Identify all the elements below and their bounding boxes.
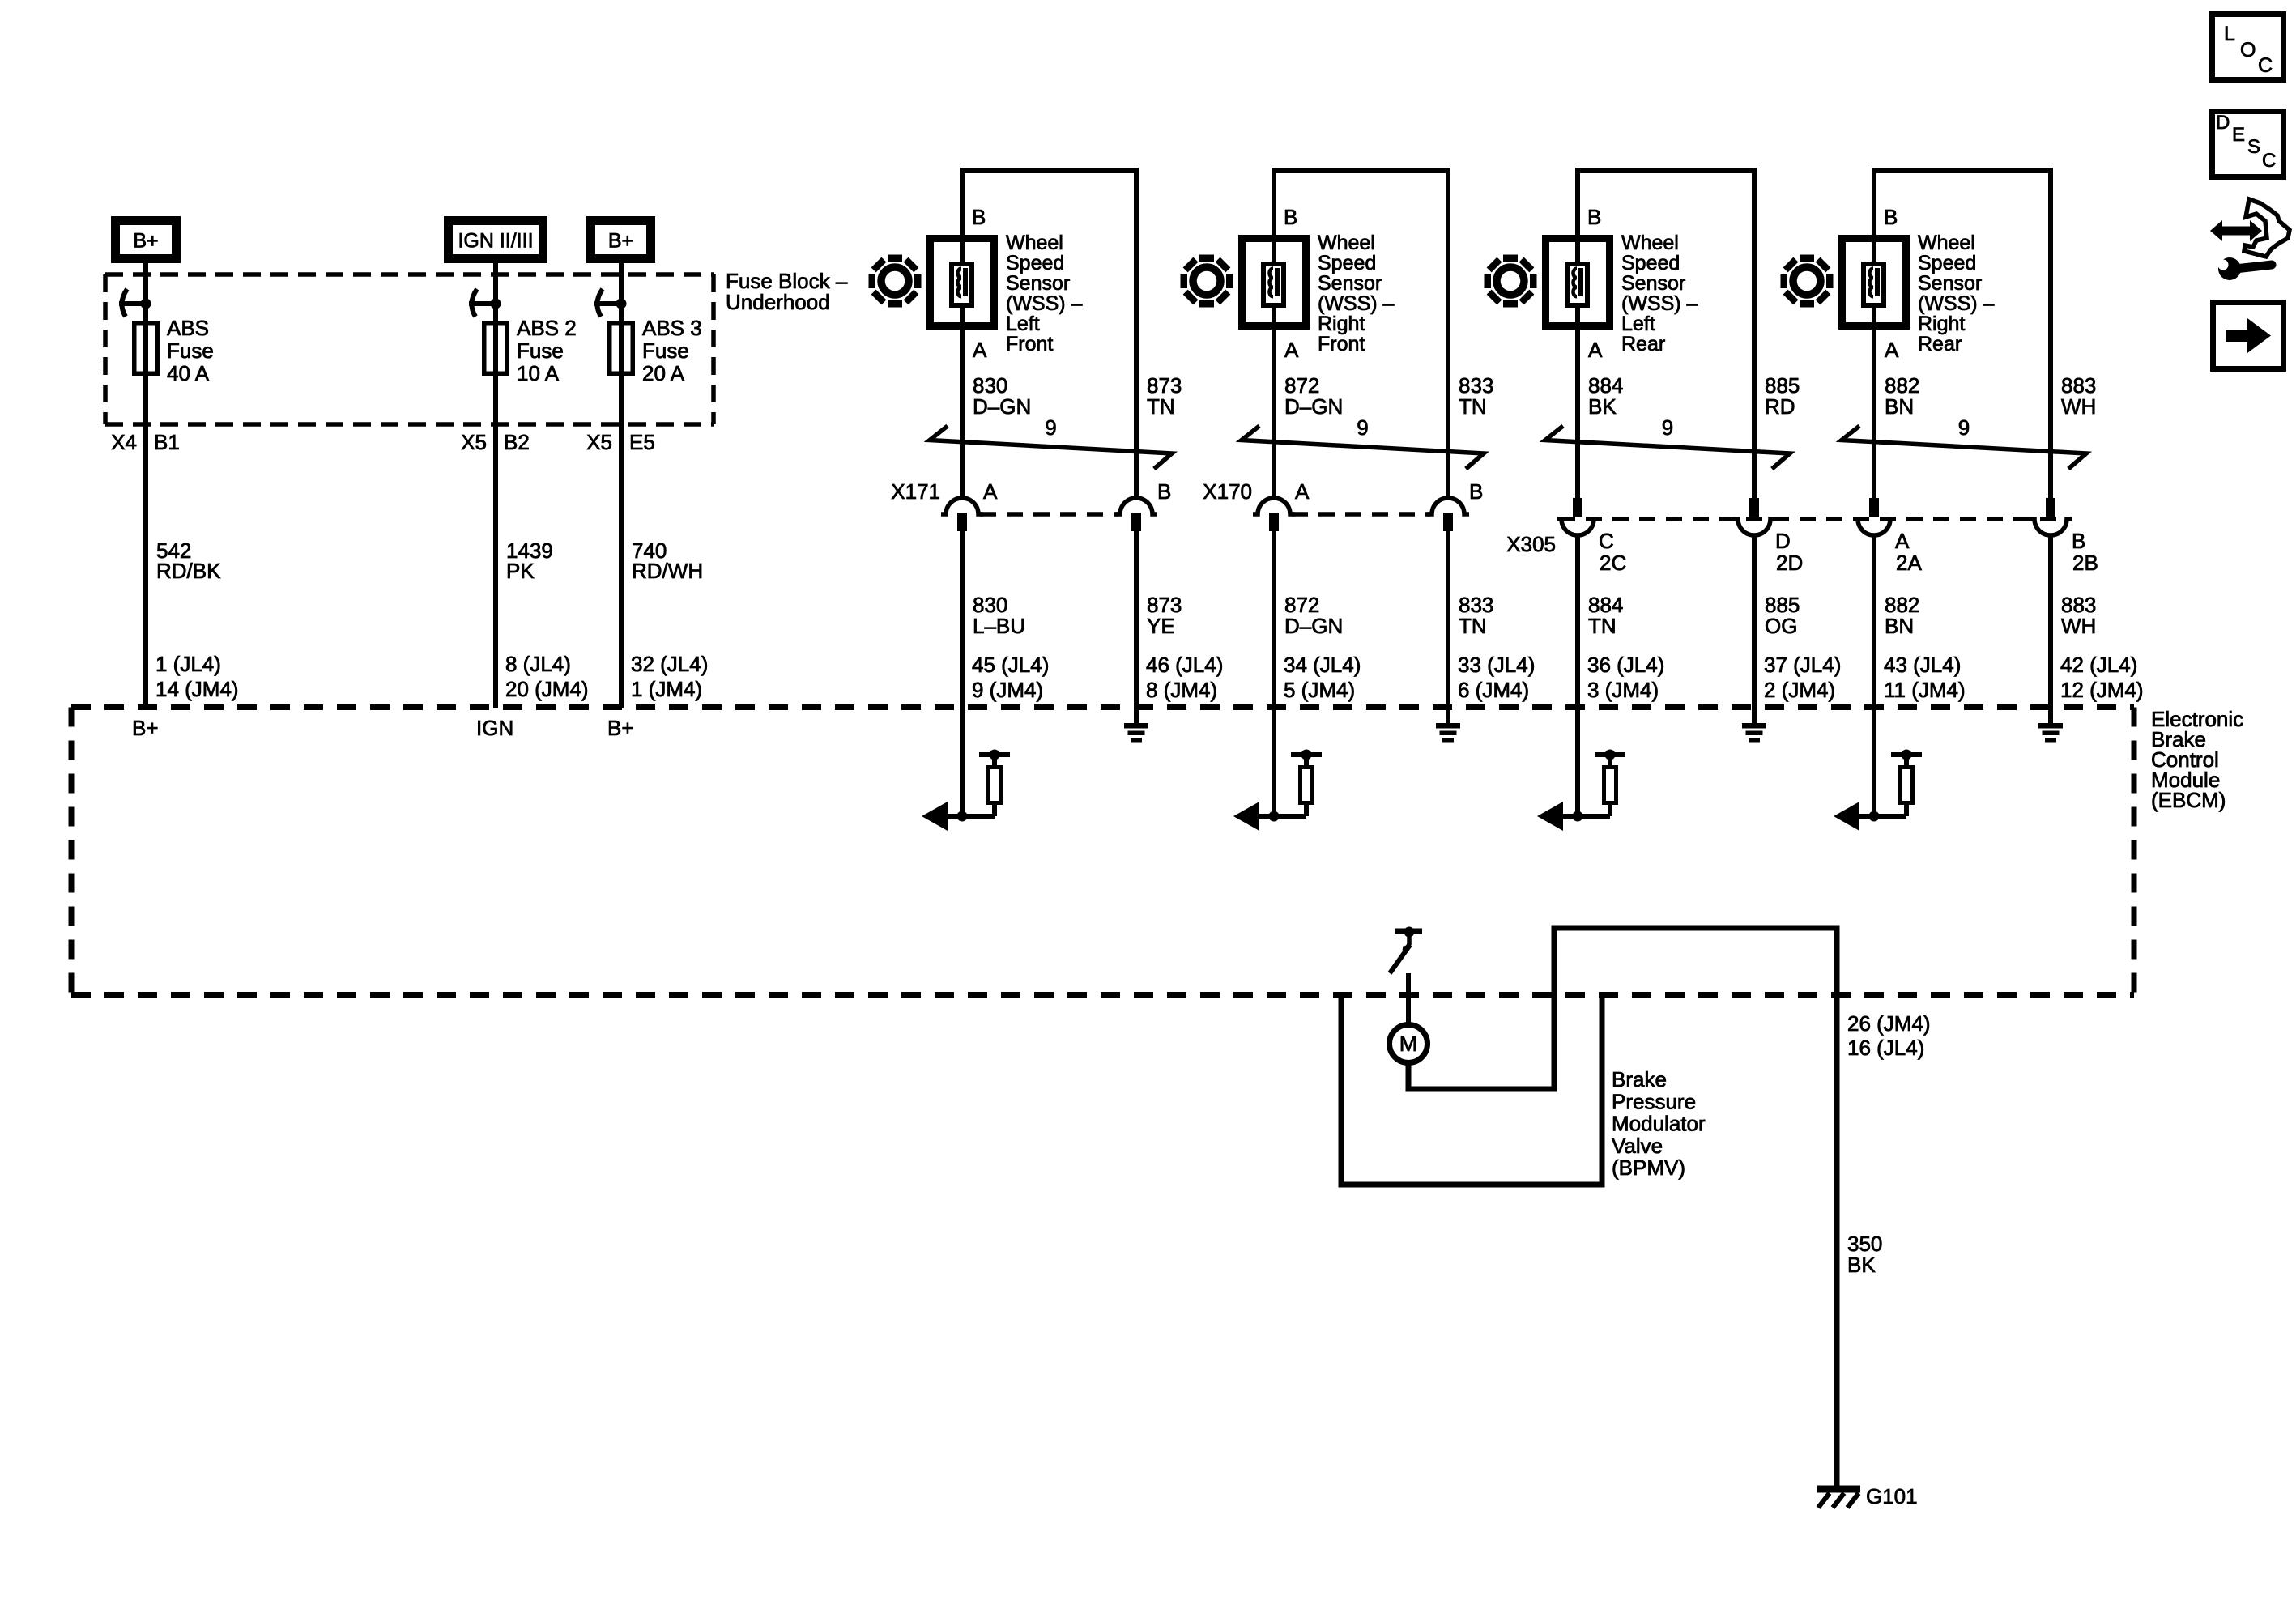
svg-text:1 (JL4): 1 (JL4) <box>155 652 221 676</box>
svg-text:X4: X4 <box>111 430 137 454</box>
ground label G101 <box>1866 1484 1918 1508</box>
svg-text:42 (JL4): 42 (JL4) <box>2060 653 2137 677</box>
WSS Right Front name label <box>1318 232 1395 355</box>
connector X171 dashed pairing line <box>980 512 1118 517</box>
connector X305 dashed pairing line <box>1559 517 2069 521</box>
wire label 350 BK <box>1847 1232 1882 1277</box>
connector X170 terminal B (female arc + male pin) <box>1427 498 1469 531</box>
connector X171 labels <box>891 479 1171 504</box>
svg-text:D–GN: D–GN <box>1284 614 1343 638</box>
EBCM pin labels 37 (JL4) / 2 (JM4) <box>1764 653 1841 702</box>
svg-text:20 (JM4): 20 (JM4) <box>505 677 589 701</box>
EBCM internal net label IGN <box>476 716 513 740</box>
svg-text:5 (JM4): 5 (JM4) <box>1284 678 1355 702</box>
WSS Left Rear sensor element (coil and core) <box>1567 264 1587 305</box>
svg-text:(WSS) –: (WSS) – <box>1918 292 1995 315</box>
svg-text:E5: E5 <box>629 430 655 454</box>
svg-text:B2: B2 <box>504 430 530 454</box>
svg-text:B+: B+ <box>132 716 159 740</box>
wire label 830 D–GN <box>973 373 1031 419</box>
connector X305 terminal D (male pin + female cup) <box>1733 498 1775 535</box>
svg-text:26 (JM4): 26 (JM4) <box>1847 1011 1931 1036</box>
EBCM pin labels 8 (JL4) / 20 (JM4) <box>505 652 589 701</box>
svg-text:BN: BN <box>1885 394 1914 419</box>
svg-text:PK: PK <box>506 559 535 583</box>
ground G101 <box>1817 1489 1860 1508</box>
svg-text:11 (JM4): 11 (JM4) <box>1884 678 1966 702</box>
twisted pair symbol (Left Rear) <box>1545 426 1790 469</box>
svg-text:8 (JL4): 8 (JL4) <box>505 652 571 676</box>
fuse ABS 40 A <box>119 289 214 385</box>
WSS Right Rear terminal letters B / A <box>1884 205 1899 362</box>
svg-text:Wheel: Wheel <box>1918 232 1975 254</box>
svg-text:TN: TN <box>1147 394 1175 419</box>
svg-text:12 (JM4): 12 (JM4) <box>2060 678 2144 702</box>
connector pin labels X4 B1 <box>111 430 180 454</box>
svg-text:43 (JL4): 43 (JL4) <box>1884 653 1961 677</box>
svg-text:C: C <box>2258 54 2273 77</box>
svg-text:10 A: 10 A <box>517 361 560 385</box>
svg-text:Front: Front <box>1318 333 1365 355</box>
svg-text:D–GN: D–GN <box>973 394 1031 419</box>
wire label 833 TN <box>1459 373 1493 419</box>
wire label 882 BN <box>1885 593 1919 638</box>
WSS Left Rear wire B (left leg) <box>1575 168 1580 498</box>
wheel speed sensor WSS Right Front: housing top wire <box>1272 168 1450 173</box>
gear icon Left Front <box>869 255 922 308</box>
twist count label 9 <box>1357 415 1368 440</box>
svg-text:36 (JL4): 36 (JL4) <box>1587 653 1664 677</box>
EBCM pin labels 42 (JL4) / 12 (JM4) <box>2060 653 2144 702</box>
svg-text:IGN II/III: IGN II/III <box>458 230 533 253</box>
icon forward arrow box <box>2213 303 2284 369</box>
svg-text:BK: BK <box>1847 1253 1876 1277</box>
EBCM dashed box <box>71 708 2134 995</box>
wire B lower segment (Left Front) <box>1134 531 1139 724</box>
svg-text:2D: 2D <box>1776 551 1803 575</box>
wire label 872 D–GN <box>1284 373 1343 419</box>
svg-text:D: D <box>1775 529 1791 553</box>
svg-text:IGN: IGN <box>476 716 513 740</box>
svg-text:8 (JM4): 8 (JM4) <box>1146 678 1217 702</box>
WSS Right Rear sensor outline box <box>1842 239 1906 326</box>
wire switch to motor <box>1406 973 1411 1025</box>
svg-text:A: A <box>1284 338 1299 362</box>
svg-text:O: O <box>2240 39 2256 62</box>
connector X171 terminal A (female arc + male pin) <box>941 498 983 531</box>
svg-text:Right: Right <box>1318 313 1365 335</box>
wire A lower segment (Right Rear) <box>1872 534 1876 816</box>
svg-text:RD/BK: RD/BK <box>156 559 221 583</box>
fuse ABS 3 20 A <box>594 289 702 385</box>
svg-text:Front: Front <box>1006 333 1053 355</box>
svg-text:Sensor: Sensor <box>1006 272 1070 295</box>
gear icon Left Rear <box>1485 255 1537 308</box>
wire A lower segment (Right Front) <box>1272 531 1276 816</box>
wire label 542 RD/BK <box>156 538 221 583</box>
wheel speed sensor WSS Left Rear: housing top wire <box>1575 168 1757 173</box>
svg-text:16 (JL4): 16 (JL4) <box>1847 1036 1924 1060</box>
svg-text:B: B <box>1469 479 1483 504</box>
wire label 884 BK <box>1588 373 1623 419</box>
WSS Right Rear sensor element (coil and core) <box>1864 264 1884 305</box>
svg-text:ABS 2: ABS 2 <box>517 316 577 340</box>
svg-text:33 (JL4): 33 (JL4) <box>1458 653 1535 677</box>
svg-text:A: A <box>1588 338 1603 362</box>
svg-text:BK: BK <box>1588 394 1617 419</box>
svg-text:A: A <box>983 479 998 504</box>
svg-text:RD: RD <box>1765 394 1795 419</box>
svg-text:20 A: 20 A <box>642 361 685 385</box>
ground symbol inside EBCM under wire 873 <box>1124 723 1148 743</box>
gear icon Right Front <box>1181 255 1233 308</box>
icon DESC box <box>2213 112 2284 177</box>
twist count label 9 <box>1958 415 1970 440</box>
fuse block label <box>726 269 848 314</box>
svg-text:B: B <box>1587 205 1601 229</box>
svg-text:G101: G101 <box>1866 1484 1918 1508</box>
WSS Left Rear name label <box>1621 232 1698 355</box>
ground symbol inside EBCM under wire 885 <box>1742 723 1766 743</box>
svg-text:9: 9 <box>1958 415 1970 440</box>
svg-text:E: E <box>2232 124 2245 146</box>
svg-text:X171: X171 <box>891 479 940 504</box>
fuse ABS 2 10 A <box>469 289 577 385</box>
power feed box IGN II/III (column 2) <box>449 221 543 259</box>
WSS Right Rear wire B (left leg) <box>1872 168 1876 498</box>
svg-text:46 (JL4): 46 (JL4) <box>1146 653 1223 677</box>
svg-text:Brake: Brake <box>1612 1067 1667 1091</box>
connector X305 terminal letters C/2C <box>1599 529 1626 575</box>
wire motor return to EBCM and ground feed 350 BK <box>1408 928 1837 1490</box>
connector X305 terminal letters A/2A <box>1895 529 1922 575</box>
wire B lower segment (Right Front) <box>1446 531 1450 724</box>
WSS Right Front sensor outline box <box>1242 239 1306 326</box>
svg-text:34 (JL4): 34 (JL4) <box>1284 653 1361 677</box>
svg-text:S: S <box>2247 136 2260 158</box>
svg-text:9: 9 <box>1662 415 1673 440</box>
wire from B+ through fuse ABS 3 to EBCM <box>619 263 624 708</box>
wire label 885 RD <box>1765 373 1800 419</box>
BPMV box outline <box>1341 994 1602 1185</box>
EBCM internal sense network (arrow + resistor) for Right Front <box>1233 750 1322 832</box>
svg-text:1 (JM4): 1 (JM4) <box>631 677 702 701</box>
svg-text:Pressure: Pressure <box>1612 1089 1696 1113</box>
svg-text:Right: Right <box>1918 313 1965 335</box>
EBCM internal sense network (arrow + resistor) for Left Front <box>922 750 1010 832</box>
EBCM name label <box>2151 707 2243 812</box>
WSS Left Front name label <box>1006 232 1083 355</box>
wire B lower segment (Left Rear) <box>1752 534 1757 724</box>
WSS Right Front terminal letters B / A <box>1284 205 1299 362</box>
connector pin labels X5 B2 <box>461 430 530 454</box>
svg-text:A: A <box>1885 338 1899 362</box>
WSS Left Rear wire A (right leg) <box>1752 168 1757 498</box>
wire A lower segment (Left Rear) <box>1575 534 1580 816</box>
svg-text:B+: B+ <box>607 716 634 740</box>
wire from IGN II/III through fuse ABS 2 to EBCM <box>493 263 498 708</box>
svg-text:6 (JM4): 6 (JM4) <box>1458 678 1529 702</box>
svg-text:B+: B+ <box>608 230 633 253</box>
svg-text:Wheel: Wheel <box>1006 232 1063 254</box>
twist count label 9 <box>1045 415 1056 440</box>
connector X305 label <box>1506 532 1556 556</box>
twisted pair symbol (Right Rear) <box>1842 426 2086 469</box>
twisted pair symbol (Right Front) <box>1242 426 1484 469</box>
svg-text:X170: X170 <box>1203 479 1252 504</box>
svg-text:ABS 3: ABS 3 <box>642 316 702 340</box>
connector X170 dashed pairing line <box>1292 512 1430 517</box>
svg-text:X5: X5 <box>461 430 487 454</box>
icon LOC box <box>2213 15 2284 80</box>
connector X170 terminal A (female arc + male pin) <box>1253 498 1295 531</box>
EBCM pin labels 34 (JL4) / 5 (JM4) <box>1284 653 1361 702</box>
WSS Right Front sensor element (coil and core) <box>1263 264 1284 305</box>
power feed box B+ (column 3) <box>591 221 651 259</box>
WSS Left Front sensor element (coil and core) <box>952 264 972 305</box>
svg-text:32 (JL4): 32 (JL4) <box>631 652 708 676</box>
svg-text:Fuse: Fuse <box>517 338 564 363</box>
EBCM pin labels 26 (JM4) / 16 (JL4) <box>1847 1011 1931 1060</box>
svg-text:A: A <box>1895 529 1910 553</box>
EBCM pin labels 33 (JL4) / 6 (JM4) <box>1458 653 1535 702</box>
wire label 885 OG <box>1765 593 1800 638</box>
WSS Right Rear name label <box>1918 232 1995 355</box>
svg-text:YE: YE <box>1147 614 1175 638</box>
svg-text:Speed: Speed <box>1318 252 1376 274</box>
WSS Left Rear sensor outline box <box>1546 239 1610 326</box>
svg-text:(WSS) –: (WSS) – <box>1621 292 1698 315</box>
EBCM internal net label B+ <box>607 716 634 740</box>
connector pin labels X5 E5 <box>586 430 655 454</box>
svg-text:Speed: Speed <box>1621 252 1680 274</box>
wheel speed sensor WSS Left Front: housing top wire <box>960 168 1139 173</box>
svg-text:Fuse: Fuse <box>167 338 214 363</box>
wire label 873 YE <box>1147 593 1182 638</box>
svg-text:Fuse: Fuse <box>642 338 689 363</box>
twisted pair symbol (Left Front) <box>930 426 1172 469</box>
svg-text:TN: TN <box>1459 394 1487 419</box>
svg-text:WH: WH <box>2061 614 2096 638</box>
svg-text:(WSS) –: (WSS) – <box>1006 292 1083 315</box>
svg-text:2 (JM4): 2 (JM4) <box>1764 678 1835 702</box>
svg-text:(EBCM): (EBCM) <box>2151 788 2226 812</box>
svg-text:Speed: Speed <box>1006 252 1064 274</box>
WSS Left Rear terminal letters B / A <box>1587 205 1603 362</box>
EBCM internal sense network (arrow + resistor) for Left Rear <box>1537 750 1625 832</box>
EBCM internal net label B+ <box>132 716 159 740</box>
connector X305 terminal letters B/2B <box>2072 529 2098 575</box>
wire label 830 L–BU <box>973 593 1025 638</box>
wire label 873 TN <box>1147 373 1182 419</box>
svg-text:D–GN: D–GN <box>1284 394 1343 419</box>
wire label 884 TN <box>1588 593 1623 638</box>
wire label 740 RD/WH <box>632 538 703 583</box>
svg-text:2A: 2A <box>1896 551 1922 575</box>
svg-text:(BPMV): (BPMV) <box>1612 1155 1685 1180</box>
wire from B+ through fuse ABS to EBCM <box>143 263 148 708</box>
EBCM pin labels 46 (JL4) / 8 (JM4) <box>1146 653 1223 702</box>
WSS Right Front wire B (left leg) <box>1272 168 1276 499</box>
svg-text:2B: 2B <box>2072 551 2098 575</box>
svg-text:TN: TN <box>1459 614 1487 638</box>
connector X305 terminal B (male pin + female cup) <box>2030 498 2072 535</box>
connector X305 terminal A (male pin + female cup) <box>1853 498 1895 535</box>
ground symbol inside EBCM under wire 883 <box>2038 723 2063 743</box>
twist count label 9 <box>1662 415 1673 440</box>
connector X305 terminal letters D/2D <box>1775 529 1803 575</box>
svg-text:9 (JM4): 9 (JM4) <box>972 678 1043 702</box>
svg-text:RD/WH: RD/WH <box>632 559 703 583</box>
connector X171 terminal B (female arc + male pin) <box>1115 498 1157 531</box>
svg-text:B: B <box>972 205 986 229</box>
svg-text:Sensor: Sensor <box>1621 272 1685 295</box>
gear icon Right Rear <box>1781 255 1834 308</box>
wire label 872 D–GN <box>1284 593 1343 638</box>
svg-text:Sensor: Sensor <box>1918 272 1982 295</box>
EBCM pin labels 36 (JL4) / 3 (JM4) <box>1587 653 1664 702</box>
svg-text:Modulator: Modulator <box>1612 1112 1706 1136</box>
svg-text:X305: X305 <box>1506 532 1556 556</box>
wire label 882 BN <box>1885 373 1919 419</box>
svg-text:B: B <box>2072 529 2085 553</box>
svg-text:C: C <box>1599 529 1614 553</box>
EBCM pin labels 43 (JL4) / 11 (JM4) <box>1884 653 1966 702</box>
wire label 883 WH <box>2061 373 2096 419</box>
svg-text:ABS: ABS <box>167 316 209 340</box>
connector X170 labels <box>1203 479 1483 504</box>
EBCM internal sense network (arrow + resistor) for Right Rear <box>1834 750 1922 832</box>
WSS Right Front wire A (right leg) <box>1446 168 1450 499</box>
svg-text:Wheel: Wheel <box>1318 232 1375 254</box>
svg-text:Wheel: Wheel <box>1621 232 1679 254</box>
svg-text:9: 9 <box>1357 415 1368 440</box>
EBCM pin labels 1 (JL4) / 14 (JM4) <box>155 652 239 701</box>
svg-text:L: L <box>2224 23 2235 45</box>
wire B lower segment (Right Rear) <box>2048 534 2053 724</box>
svg-text:OG: OG <box>1765 614 1797 638</box>
svg-text:A: A <box>1295 479 1310 504</box>
power feed box B+ (column 1) <box>116 221 177 259</box>
WSS Left Front terminal letters B / A <box>972 205 987 362</box>
wire A lower segment (Left Front) <box>960 531 965 816</box>
svg-text:Valve: Valve <box>1612 1134 1663 1158</box>
svg-text:M: M <box>1399 1032 1418 1056</box>
svg-text:D: D <box>2216 112 2230 134</box>
svg-text:Rear: Rear <box>1621 333 1665 355</box>
svg-text:A: A <box>973 338 987 362</box>
svg-text:BN: BN <box>1885 614 1914 638</box>
svg-text:3 (JM4): 3 (JM4) <box>1587 678 1659 702</box>
svg-text:45 (JL4): 45 (JL4) <box>972 653 1049 677</box>
svg-text:40 A: 40 A <box>167 361 210 385</box>
svg-text:B+: B+ <box>133 230 158 253</box>
svg-text:Left: Left <box>1006 313 1040 335</box>
fuse block underhood dashed box <box>105 274 714 424</box>
svg-text:TN: TN <box>1588 614 1617 638</box>
pump motor switch (EBCM internal driver) <box>1390 927 1422 974</box>
svg-text:B: B <box>1284 205 1297 229</box>
svg-text:X5: X5 <box>586 430 612 454</box>
svg-text:B: B <box>1884 205 1898 229</box>
svg-text:WH: WH <box>2061 394 2096 419</box>
WSS Left Front sensor outline box <box>931 239 995 326</box>
svg-text:37 (JL4): 37 (JL4) <box>1764 653 1841 677</box>
wire label 1439 PK <box>506 538 553 583</box>
svg-text:9: 9 <box>1045 415 1056 440</box>
svg-text:B: B <box>1157 479 1171 504</box>
svg-text:Rear: Rear <box>1918 333 1962 355</box>
svg-text:Sensor: Sensor <box>1318 272 1382 295</box>
icon connector view (double arrow, plug outline, wrench) <box>2210 199 2290 280</box>
EBCM pin labels 45 (JL4) / 9 (JM4) <box>972 653 1049 702</box>
svg-text:Speed: Speed <box>1918 252 1976 274</box>
wheel speed sensor WSS Right Rear: housing top wire <box>1872 168 2053 173</box>
svg-text:Left: Left <box>1621 313 1655 335</box>
motor M (BPMV pump motor) <box>1390 1025 1428 1063</box>
WSS Left Front wire B (left leg) <box>960 168 965 499</box>
svg-text:Underhood: Underhood <box>726 290 830 314</box>
svg-text:2C: 2C <box>1600 551 1626 575</box>
WSS Left Front wire A (right leg) <box>1134 168 1139 499</box>
WSS Right Rear wire A (right leg) <box>2048 168 2053 498</box>
svg-text:L–BU: L–BU <box>973 614 1025 638</box>
wire label 833 TN <box>1459 593 1493 638</box>
connector X305 terminal C (male pin + female cup) <box>1557 498 1599 535</box>
svg-text:14 (JM4): 14 (JM4) <box>155 677 239 701</box>
svg-text:C: C <box>2262 150 2276 172</box>
ground symbol inside EBCM under wire 833 <box>1436 723 1460 743</box>
BPMV name label <box>1612 1067 1706 1180</box>
wire label 883 WH <box>2061 593 2096 638</box>
svg-text:(WSS) –: (WSS) – <box>1318 292 1395 315</box>
svg-text:B1: B1 <box>154 430 180 454</box>
EBCM pin labels 32 (JL4) / 1 (JM4) <box>631 652 708 701</box>
